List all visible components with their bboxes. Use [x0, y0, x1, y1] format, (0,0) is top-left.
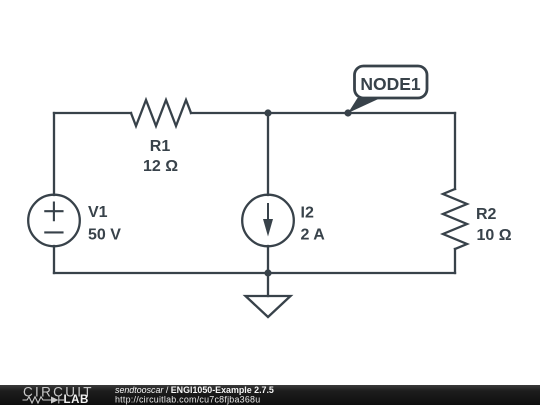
wire right vertical lower — [454, 249, 456, 273]
svg-text:LAB: LAB — [64, 394, 89, 405]
svg-text:2 A: 2 A — [301, 227, 326, 244]
junction dot bottom — [264, 269, 271, 276]
junction dot above I2 — [264, 109, 271, 116]
current source I2 — [242, 195, 294, 247]
footer black bar — [0, 385, 540, 405]
NODE1 flag box — [355, 66, 428, 98]
wire top-left horizontal — [54, 112, 131, 114]
V1 plus sign — [45, 203, 62, 221]
wire bottom horizontal — [54, 272, 455, 274]
svg-text:NODE1: NODE1 — [360, 74, 421, 94]
I2 arrow shaft — [267, 204, 269, 226]
svg-text:R1: R1 — [150, 138, 171, 155]
svg-text:R2: R2 — [476, 206, 497, 223]
wire I2 top stem — [267, 113, 269, 195]
junction dot NODE1 anchor — [344, 109, 351, 116]
wire left vertical upper — [53, 113, 55, 195]
V1 minus sign — [45, 231, 62, 233]
svg-text:10 Ω: 10 Ω — [477, 227, 512, 244]
footer logo wire-resistor-diode glyph — [23, 397, 65, 404]
voltage source V1 — [28, 195, 80, 247]
wire I2 bottom stem — [267, 246, 269, 273]
svg-text:50 V: 50 V — [88, 227, 121, 244]
resistor R1 — [131, 100, 191, 126]
I2 arrowhead — [263, 219, 273, 237]
svg-text:12 Ω: 12 Ω — [143, 158, 178, 175]
wire right vertical upper — [454, 113, 456, 189]
wire top from R1 to right corner — [191, 112, 455, 114]
NODE1 pointer triangle — [348, 98, 381, 113]
svg-text:http://circuitlab.com/cu7c8fjb: http://circuitlab.com/cu7c8fjba368u — [115, 395, 260, 405]
svg-text:V1: V1 — [88, 204, 108, 221]
footer logo diode triangle — [51, 397, 59, 404]
svg-text:sendtooscar / ENGI1050-Example: sendtooscar / ENGI1050-Example 2.7.5 — [115, 385, 274, 395]
ground stem — [267, 273, 269, 296]
svg-text:I2: I2 — [301, 205, 314, 222]
resistor R2 — [443, 189, 467, 249]
wire left vertical lower — [53, 246, 55, 273]
ground triangle — [246, 296, 291, 317]
